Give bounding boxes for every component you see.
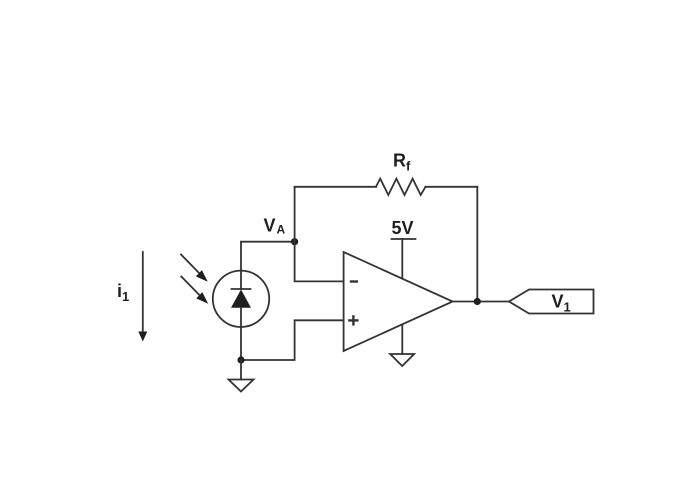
ground under op-amp — [390, 354, 414, 366]
wire photodiode vertical through circle — [240, 271, 242, 327]
resistor Rf — [376, 179, 426, 195]
wire photodiode bottom to ground node — [240, 327, 242, 360]
power 5V bar — [392, 238, 416, 240]
wire photodiode top to VA node — [241, 242, 295, 271]
photodiode circle — [213, 271, 269, 327]
label V1 — [552, 292, 571, 315]
label VA — [264, 216, 286, 237]
light arrow 2 — [181, 277, 208, 304]
node bottom junction dot — [237, 356, 244, 363]
svg-text:A: A — [277, 223, 286, 237]
label i1 — [117, 281, 129, 304]
op-amp U1 — [344, 252, 453, 351]
wire bottom node to non-inverting input — [241, 320, 344, 360]
output flag V1 — [509, 290, 594, 314]
wire op-amp output — [453, 301, 509, 303]
label 5V — [392, 218, 414, 238]
node output junction dot — [474, 298, 481, 305]
svg-text:1: 1 — [564, 300, 571, 315]
node VA junction dot — [291, 238, 298, 245]
op-amp plus sign — [349, 316, 357, 324]
photodiode anode triangle — [231, 290, 251, 308]
op-amp minus sign — [351, 280, 357, 282]
svg-text:R: R — [393, 151, 406, 171]
svg-text:1: 1 — [122, 289, 129, 304]
wire feedback right segment — [426, 186, 478, 188]
svg-text:5V: 5V — [392, 218, 414, 238]
svg-text:V: V — [264, 216, 276, 236]
wire VA node down to inverting input — [295, 242, 344, 282]
light arrow 1 — [181, 255, 208, 282]
wire 5V to op-amp top — [401, 239, 403, 278]
current arrow i1 — [138, 252, 147, 342]
wire op-amp bottom to ground — [401, 325, 403, 355]
svg-text:f: f — [406, 159, 411, 174]
label Rf — [393, 151, 411, 174]
ground under photodiode — [229, 360, 254, 392]
photodiode cathode bar — [232, 288, 251, 290]
wire feedback down to output node — [476, 187, 478, 302]
svg-text:V: V — [552, 292, 564, 312]
wire VA node up to feedback — [294, 187, 296, 242]
wire feedback left segment — [295, 186, 376, 188]
